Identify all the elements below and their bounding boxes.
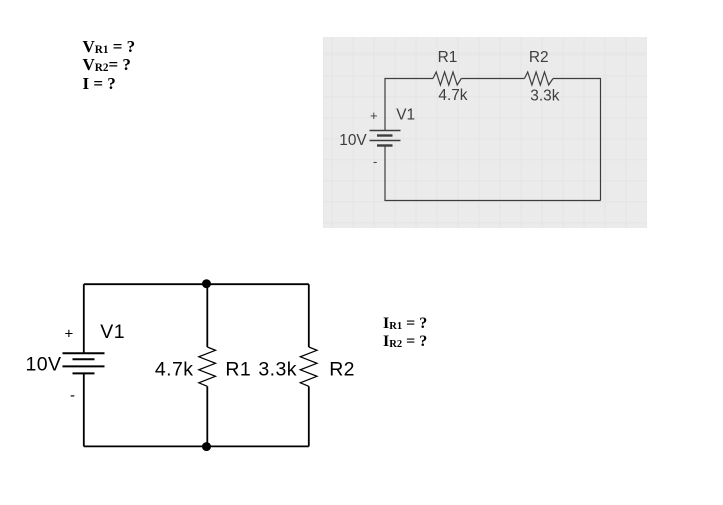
grey schematic panel xyxy=(323,37,647,228)
svg-text:10V: 10V xyxy=(339,132,367,149)
wire middle branch upper xyxy=(206,284,208,347)
junction node top xyxy=(202,279,211,288)
resistor R1 (4.7k, parallel, vertical) xyxy=(199,347,216,386)
wire top-left: battery top lead and top wire to R1 xyxy=(385,79,433,131)
wire left upper: top wire to battery xyxy=(83,284,85,353)
wire right branch lower xyxy=(308,386,310,446)
svg-text:4.7k: 4.7k xyxy=(155,359,193,381)
wire right side xyxy=(553,79,601,201)
wire bottom (parallel circuit) xyxy=(84,445,309,447)
svg-text:-: - xyxy=(70,387,75,404)
equations top-left xyxy=(83,38,136,93)
svg-text:V1: V1 xyxy=(396,107,415,124)
svg-text:R1: R1 xyxy=(438,49,458,66)
equations bottom-right xyxy=(383,315,427,351)
svg-text:4.7k: 4.7k xyxy=(438,87,467,104)
svg-text:R1: R1 xyxy=(225,359,251,381)
svg-text:V1: V1 xyxy=(100,321,125,343)
svg-text:-: - xyxy=(373,154,377,169)
battery V1 (parallel circuit) xyxy=(63,353,105,373)
wire middle branch lower xyxy=(206,386,208,446)
svg-text:R2: R2 xyxy=(329,359,355,381)
svg-text:+: + xyxy=(370,108,378,123)
wire left lower: battery to bottom wire xyxy=(83,373,85,446)
resistor R1 (4.7k, series) xyxy=(433,72,461,85)
svg-text:3.3k: 3.3k xyxy=(258,359,296,381)
resistor R2 (3.3k, parallel, vertical) xyxy=(300,347,317,386)
svg-text:+: + xyxy=(65,326,74,343)
svg-text:R2: R2 xyxy=(529,49,549,66)
wire between R1 and R2 xyxy=(461,78,524,80)
junction node bottom xyxy=(202,442,211,451)
battery V1 (series circuit) xyxy=(370,131,401,146)
svg-text:3.3k: 3.3k xyxy=(530,88,559,105)
svg-text:10V: 10V xyxy=(26,354,62,376)
wire top (parallel circuit) xyxy=(84,283,309,285)
wire bottom xyxy=(385,146,601,201)
wire right branch upper xyxy=(308,284,310,347)
resistor R2 (3.3k, series) xyxy=(525,72,554,85)
